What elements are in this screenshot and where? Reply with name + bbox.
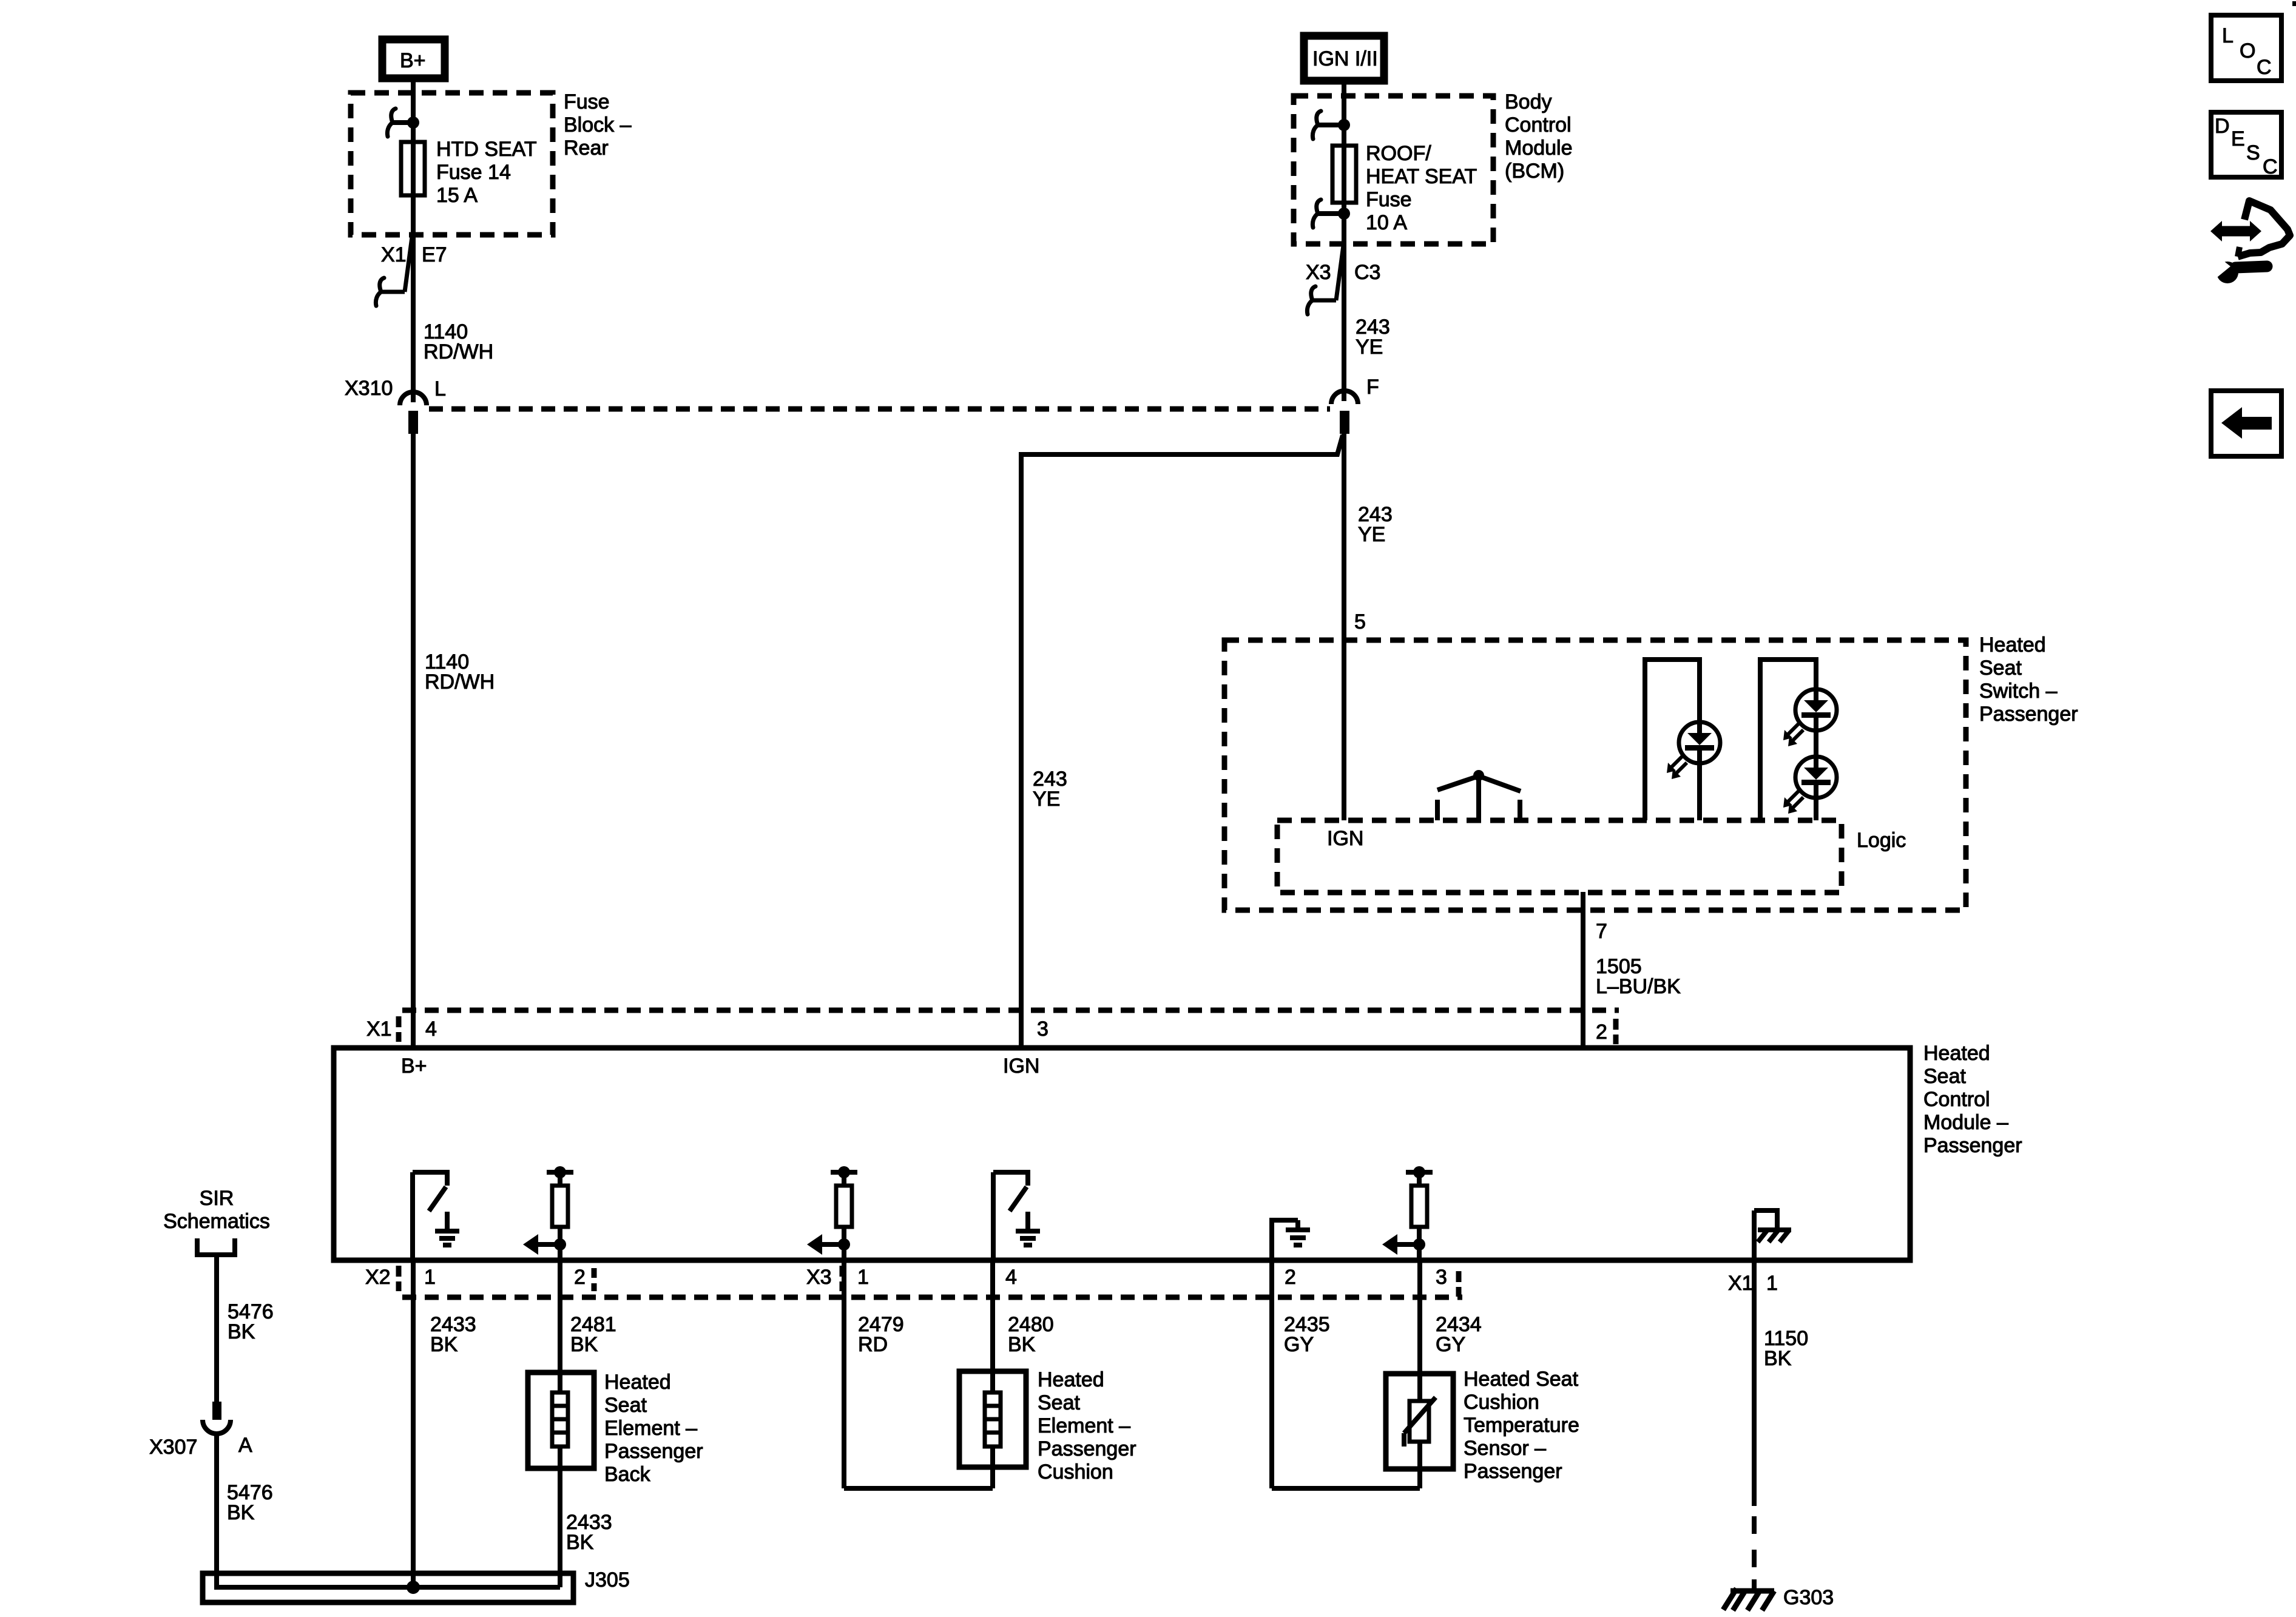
label fuse 10A xyxy=(1366,142,1477,234)
label Heated Seat Element Back xyxy=(604,1371,703,1486)
module chassis ground internal xyxy=(1754,1210,1791,1260)
svg-text:Switch –: Switch – xyxy=(1979,680,2058,703)
label SIR Schematics xyxy=(163,1187,270,1233)
power symbol B+ xyxy=(382,39,445,78)
svg-text:BK: BK xyxy=(430,1333,458,1356)
page mark xyxy=(2292,1,2296,6)
svg-text:RD: RD xyxy=(858,1333,888,1356)
icon DESC xyxy=(2211,112,2281,178)
svg-text:BK: BK xyxy=(570,1333,598,1356)
label X1 bottom xyxy=(1728,1272,1754,1295)
svg-text:GY: GY xyxy=(1284,1333,1314,1356)
svg-text:A: A xyxy=(238,1434,252,1457)
wire label 1140 RD/WH upper xyxy=(424,320,493,363)
svg-text:Passenger: Passenger xyxy=(1464,1460,1562,1483)
wire 1140 lower segment xyxy=(411,434,416,1048)
indicator LED pair wires xyxy=(1760,660,1816,820)
temperature sensor box xyxy=(1386,1374,1453,1469)
BCM dashed box xyxy=(1294,96,1493,244)
wire label 1505 L-BU/BK xyxy=(1596,955,1681,998)
wire 1505 from logic xyxy=(1581,892,1585,1048)
label X1 top xyxy=(366,1018,392,1041)
wire branch 243 YE to module IGN xyxy=(1021,435,1343,1048)
pin 1 label X3 xyxy=(857,1266,869,1289)
pin 3 label sensor xyxy=(1436,1266,1447,1289)
svg-text:Module –: Module – xyxy=(1923,1111,2008,1134)
svg-text:F: F xyxy=(1366,376,1379,399)
svg-text:2: 2 xyxy=(1285,1266,1296,1289)
pin 4 label xyxy=(425,1018,437,1041)
svg-text:15 A: 15 A xyxy=(436,184,478,207)
svg-text:4: 4 xyxy=(1005,1266,1017,1289)
wire label 2480 BK xyxy=(1008,1313,1054,1356)
svg-text:Passenger: Passenger xyxy=(604,1440,703,1463)
wire label 243 YE branch xyxy=(1033,768,1067,811)
svg-text:Fuse: Fuse xyxy=(1366,188,1412,211)
connector row X2 X3 dashed line xyxy=(399,1266,1462,1297)
svg-text:Fuse 14: Fuse 14 xyxy=(436,161,511,184)
svg-text:Passenger: Passenger xyxy=(1038,1437,1136,1460)
svg-text:Heated Seat: Heated Seat xyxy=(1464,1368,1579,1391)
svg-text:Rear: Rear xyxy=(564,137,609,160)
svg-text:Element –: Element – xyxy=(604,1417,697,1440)
wire 2433 BK xyxy=(411,1260,416,1587)
connector X307 xyxy=(149,1402,252,1459)
junction node BCM bottom xyxy=(1312,200,1350,228)
svg-text:3: 3 xyxy=(1436,1266,1447,1289)
svg-text:BK: BK xyxy=(566,1531,594,1554)
label fuse 14 xyxy=(436,138,537,207)
svg-text:Control: Control xyxy=(1923,1088,1990,1111)
label Heated Seat Switch Passenger xyxy=(1979,633,2078,726)
wire label 2435 GY xyxy=(1284,1313,1330,1356)
heated seat element cushion box xyxy=(959,1371,1026,1467)
fuse ROOF/HEAT SEAT xyxy=(1332,146,1356,203)
svg-text:Logic: Logic xyxy=(1857,829,1906,852)
svg-text:IGN: IGN xyxy=(1327,827,1363,850)
svg-text:RD/WH: RD/WH xyxy=(424,340,493,363)
svg-text:10 A: 10 A xyxy=(1366,211,1407,234)
label X3 bottom xyxy=(806,1266,832,1289)
pin 1 label X2 xyxy=(424,1266,436,1289)
label IGN pin xyxy=(1003,1055,1039,1078)
pin 2 label sensor xyxy=(1285,1266,1296,1289)
wire 2480 BK xyxy=(844,1260,993,1488)
svg-text:X2: X2 xyxy=(365,1266,391,1289)
label IGN pin xyxy=(1327,827,1363,850)
svg-text:HTD SEAT: HTD SEAT xyxy=(436,138,537,161)
svg-text:Seat: Seat xyxy=(1923,1065,1966,1088)
pin 2 label xyxy=(1596,1021,1607,1044)
wire label 2479 RD xyxy=(858,1313,904,1356)
svg-text:Block –: Block – xyxy=(564,113,632,137)
svg-text:HEAT SEAT: HEAT SEAT xyxy=(1366,165,1477,188)
svg-text:L–BU/BK: L–BU/BK xyxy=(1596,975,1681,998)
wire label 5476 BK lower xyxy=(227,1481,273,1524)
svg-text:BK: BK xyxy=(1764,1347,1792,1370)
connector X310 terminal L xyxy=(345,377,446,434)
wire label 2481 BK xyxy=(570,1313,616,1356)
svg-text:Passenger: Passenger xyxy=(1979,703,2078,726)
module switch output cushion element xyxy=(993,1170,1040,1260)
rocker switch xyxy=(1437,770,1521,820)
svg-text:GY: GY xyxy=(1436,1333,1465,1356)
LED indicator 2 xyxy=(1783,689,1837,746)
svg-text:ROOF/: ROOF/ xyxy=(1366,142,1431,165)
pin 5 label xyxy=(1354,610,1366,633)
svg-text:E7: E7 xyxy=(422,243,447,266)
svg-text:C: C xyxy=(2257,56,2272,79)
wire 5476 BK lower xyxy=(214,1433,219,1590)
svg-text:Schematics: Schematics xyxy=(163,1210,270,1233)
pin 7 label xyxy=(1596,920,1607,943)
svg-text:L: L xyxy=(2222,24,2234,47)
svg-text:O: O xyxy=(2240,39,2255,62)
svg-text:X1: X1 xyxy=(1728,1272,1754,1295)
svg-text:BK: BK xyxy=(228,1320,255,1343)
pin 3 label xyxy=(1037,1018,1048,1041)
wire 2479 RD xyxy=(842,1260,846,1488)
svg-text:Back: Back xyxy=(604,1463,651,1486)
svg-text:L: L xyxy=(434,377,446,400)
wire B+ vertical xyxy=(411,78,416,402)
wire label 2433 BK xyxy=(430,1313,476,1356)
svg-text:X3: X3 xyxy=(1306,261,1331,284)
heated seat control module box xyxy=(334,1048,1910,1260)
svg-text:BK: BK xyxy=(1008,1333,1036,1356)
wire 2434 GY xyxy=(1272,1260,1420,1488)
heated seat element back box xyxy=(528,1372,594,1468)
svg-text:Heated: Heated xyxy=(604,1371,671,1394)
wire 2481 BK xyxy=(558,1260,562,1587)
svg-text:RD/WH: RD/WH xyxy=(425,670,495,694)
wire label 1140 RD/WH lower xyxy=(425,650,495,694)
label Heated Seat Element Cushion xyxy=(1038,1368,1136,1484)
SIR off-page bracket xyxy=(197,1238,235,1255)
label Logic xyxy=(1857,829,1906,852)
heated seat switch dashed box xyxy=(1224,640,1966,910)
LED indicator 1 xyxy=(1667,722,1720,779)
svg-text:Seat: Seat xyxy=(1038,1391,1080,1414)
wire label 1150 BK xyxy=(1764,1327,1808,1370)
svg-text:1: 1 xyxy=(1766,1272,1778,1295)
svg-text:J305: J305 xyxy=(585,1568,630,1592)
pin 4 label X3 xyxy=(1005,1266,1017,1289)
label temperature sensor xyxy=(1464,1368,1579,1483)
label B+ pin xyxy=(401,1055,427,1078)
svg-text:Heated: Heated xyxy=(1979,633,2046,657)
svg-text:YE: YE xyxy=(1356,336,1383,359)
svg-text:Body: Body xyxy=(1505,90,1552,113)
module sense resistor back element xyxy=(523,1166,573,1260)
svg-text:D: D xyxy=(2215,115,2230,138)
svg-text:Cushion: Cushion xyxy=(1464,1391,1539,1414)
label Body Control Module xyxy=(1505,90,1573,183)
connector row X1 dashed line xyxy=(399,1010,1619,1044)
wire label 243 YE middle xyxy=(1358,503,1393,546)
svg-text:YE: YE xyxy=(1358,523,1385,546)
svg-text:1: 1 xyxy=(857,1266,869,1289)
svg-text:4: 4 xyxy=(425,1018,437,1041)
wire label 2434 GY xyxy=(1436,1313,1482,1356)
svg-text:E: E xyxy=(2231,127,2245,150)
module switch output back element xyxy=(413,1170,459,1260)
label Fuse Block Rear xyxy=(564,90,632,160)
connector X310 dashed line xyxy=(429,407,1330,412)
svg-text:YE: YE xyxy=(1033,788,1060,811)
icon connector wrench xyxy=(2210,201,2290,283)
svg-text:S: S xyxy=(2246,141,2260,164)
svg-text:G303: G303 xyxy=(1783,1586,1834,1609)
connector X3 C3 crossing xyxy=(1306,246,1380,314)
svg-text:5: 5 xyxy=(1354,610,1366,633)
svg-text:Seat: Seat xyxy=(604,1394,647,1417)
svg-text:2: 2 xyxy=(574,1266,586,1289)
LED indicator 3 xyxy=(1783,757,1837,814)
svg-text:C: C xyxy=(2263,155,2278,178)
power symbol IGN I/II xyxy=(1304,36,1384,81)
svg-text:X1: X1 xyxy=(366,1018,392,1041)
fuse F14 HTD SEAT xyxy=(401,142,425,195)
junction node BCM top xyxy=(1312,111,1350,139)
module sensor resistor xyxy=(1382,1166,1433,1260)
svg-text:1: 1 xyxy=(424,1266,436,1289)
pin 1 label X1 xyxy=(1766,1272,1778,1295)
svg-text:B+: B+ xyxy=(401,1055,427,1078)
svg-text:7: 7 xyxy=(1596,920,1607,943)
svg-text:Temperature: Temperature xyxy=(1464,1414,1579,1437)
svg-text:Element –: Element – xyxy=(1038,1414,1130,1437)
svg-text:B+: B+ xyxy=(400,49,426,72)
pin 2 label X2 xyxy=(574,1266,586,1289)
svg-text:(BCM): (BCM) xyxy=(1505,160,1564,183)
indicator LED single wires xyxy=(1645,660,1700,820)
svg-text:BK: BK xyxy=(227,1501,255,1524)
wire 1150 BK xyxy=(1752,1260,1757,1590)
svg-text:Control: Control xyxy=(1505,113,1572,137)
svg-text:Fuse: Fuse xyxy=(564,90,610,113)
logic dashed box xyxy=(1277,820,1842,893)
svg-text:Sensor –: Sensor – xyxy=(1464,1437,1546,1460)
wire 243 YE to switch xyxy=(1342,434,1346,820)
svg-text:IGN I/II: IGN I/II xyxy=(1312,47,1378,70)
wire label 2433 BK lower xyxy=(566,1511,612,1554)
connector X1 E7 crossing xyxy=(376,237,447,306)
wire 2435 GY xyxy=(1269,1260,1274,1488)
svg-text:Module: Module xyxy=(1505,137,1573,160)
svg-text:X307: X307 xyxy=(149,1436,197,1459)
wire label 243 YE upper xyxy=(1356,316,1390,359)
svg-text:SIR: SIR xyxy=(200,1187,234,1210)
svg-text:X3: X3 xyxy=(806,1266,832,1289)
label X2 xyxy=(365,1266,391,1289)
svg-text:Seat: Seat xyxy=(1979,657,2022,680)
svg-text:Heated: Heated xyxy=(1038,1368,1104,1391)
svg-text:X310: X310 xyxy=(345,377,393,400)
ground G303 xyxy=(1723,1586,1834,1610)
wire 5476 BK upper xyxy=(214,1255,219,1402)
icon LOC xyxy=(2211,15,2281,81)
svg-text:2: 2 xyxy=(1596,1021,1607,1044)
module sensor ground xyxy=(1272,1218,1310,1260)
wire label 5476 BK upper xyxy=(228,1300,274,1343)
splice pack J305 xyxy=(203,1568,630,1602)
svg-text:Cushion: Cushion xyxy=(1038,1460,1113,1484)
fuse block rear dashed box xyxy=(351,93,553,235)
icon back arrow xyxy=(2211,391,2281,456)
svg-text:Heated: Heated xyxy=(1923,1042,1990,1065)
label Heated Seat Control Module xyxy=(1923,1042,2022,1157)
wire IGN vertical xyxy=(1342,81,1346,401)
junction node in fuse block xyxy=(387,109,419,137)
svg-text:C3: C3 xyxy=(1354,261,1380,284)
svg-text:Passenger: Passenger xyxy=(1923,1134,2022,1157)
module sense resistor cushion element xyxy=(807,1166,857,1260)
svg-text:3: 3 xyxy=(1037,1018,1048,1041)
svg-text:IGN: IGN xyxy=(1003,1055,1039,1078)
connector X310 terminal F xyxy=(1331,376,1379,434)
svg-text:X1: X1 xyxy=(381,243,407,266)
